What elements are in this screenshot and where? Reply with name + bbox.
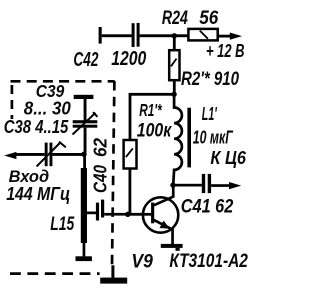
ground shield bbox=[100, 278, 127, 284]
svg-text:С42: С42 bbox=[73, 48, 98, 71]
svg-text:R1'*: R1'* bbox=[139, 100, 162, 120]
svg-text:100к: 100к bbox=[137, 121, 173, 142]
trimmer capacitor C39 bbox=[73, 95, 98, 154]
inductor L1 coil bbox=[173, 94, 182, 185]
shield box right dashed edge bbox=[112, 81, 114, 265]
wire base node to transistor bbox=[128, 213, 151, 216]
svg-text:V9: V9 bbox=[131, 250, 153, 272]
svg-text:К Ц6: К Ц6 bbox=[210, 148, 246, 168]
wire R24 to arrow bbox=[218, 35, 232, 38]
wire collector up bbox=[172, 185, 175, 197]
transistor V9 circle bbox=[143, 197, 178, 232]
arrow +12V bbox=[230, 33, 242, 40]
inductor L15 thick bar bbox=[81, 168, 87, 243]
svg-text:КТ3101-А2: КТ3101-А2 bbox=[169, 251, 248, 272]
arrow output bbox=[229, 182, 241, 189]
resistor R1 bbox=[124, 140, 137, 169]
svg-text:L1': L1' bbox=[202, 104, 217, 124]
svg-text:R24: R24 bbox=[162, 8, 188, 29]
node base junction bbox=[125, 212, 130, 217]
wire L15 to ground bbox=[83, 243, 86, 256]
wire C42 to R24 bbox=[140, 34, 189, 37]
wire input to C38 bbox=[14, 153, 45, 156]
svg-text:+ 12 В: + 12 В bbox=[206, 40, 245, 61]
shield box left dashed edge bbox=[11, 85, 14, 119]
node top junction bbox=[172, 33, 177, 38]
wire down to R1 bbox=[129, 95, 132, 140]
transistor emitter arrow bbox=[160, 221, 170, 229]
capacitor C41 bbox=[202, 174, 211, 193]
transistor emitter line bbox=[154, 220, 173, 230]
svg-text:62: 62 bbox=[91, 138, 111, 157]
wire shield to ground bbox=[111, 265, 114, 278]
node mid junction bbox=[171, 92, 176, 97]
wire L15 tap to C40 bbox=[86, 212, 96, 215]
resistor R24 bbox=[188, 29, 217, 41]
svg-text:10 мкГ: 10 мкГ bbox=[193, 128, 234, 148]
svg-text:С38 4..15: С38 4..15 bbox=[4, 116, 69, 137]
svg-text:L15: L15 bbox=[50, 213, 75, 235]
ground under L15 bbox=[76, 256, 92, 261]
svg-text:С40: С40 bbox=[91, 165, 111, 193]
capacitor C42 bbox=[132, 23, 140, 47]
shield box bottom dashed edge bbox=[10, 272, 100, 275]
capacitor C40 bbox=[96, 200, 104, 221]
input arrow bbox=[4, 152, 16, 159]
resistor R2 bbox=[169, 50, 179, 80]
node input junction bbox=[81, 152, 86, 157]
svg-text:R2'* 910: R2'* 910 bbox=[181, 69, 239, 90]
shield box top dashed edge bbox=[11, 80, 115, 83]
svg-text:С41 62: С41 62 bbox=[181, 196, 234, 217]
wire C41 to arrow bbox=[211, 184, 231, 187]
wire junction to R2 top bbox=[173, 36, 176, 50]
wire C38 to input node bbox=[52, 153, 83, 156]
terminal bar top-left bbox=[99, 27, 102, 44]
svg-text:1200: 1200 bbox=[111, 47, 146, 70]
inductor L1 core bar bbox=[187, 108, 191, 168]
svg-text:8... 30: 8... 30 bbox=[24, 99, 71, 119]
wire C40 to base node bbox=[104, 213, 129, 216]
wire collector to C41 bbox=[173, 184, 202, 187]
svg-text:144 МГц: 144 МГц bbox=[6, 184, 70, 204]
trimmer capacitor C38 bbox=[37, 142, 66, 167]
transistor base bar bbox=[151, 203, 154, 224]
ground emitter bbox=[161, 244, 183, 251]
svg-text:56: 56 bbox=[199, 8, 218, 29]
wire input node down bbox=[83, 154, 86, 168]
node collector junction bbox=[170, 182, 175, 187]
wire R1 bottom to base node bbox=[129, 169, 132, 215]
wire top from terminal to C42 bbox=[102, 34, 132, 37]
wire R2 bottom to node bbox=[173, 80, 176, 94]
wire junction left to R1 column bbox=[129, 93, 175, 96]
transistor collector line bbox=[154, 196, 174, 205]
wire emitter down bbox=[171, 228, 174, 244]
